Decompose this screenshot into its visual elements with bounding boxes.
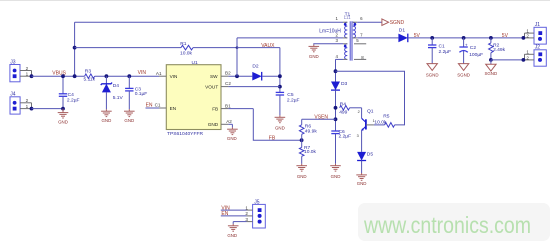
svg-text:J2: J2	[535, 45, 541, 51]
wire VIN rail	[95, 75, 159, 77]
Q1 base pin to R5	[366, 124, 374, 126]
svg-text:SGND: SGND	[457, 72, 470, 77]
capacitor C6	[335, 130, 337, 132]
wire VOUT	[228, 86, 280, 88]
svg-text:1: 1	[26, 72, 29, 77]
connector J3	[10, 65, 20, 82]
svg-text:2.2µF: 2.2µF	[339, 134, 352, 140]
svg-text:2: 2	[526, 34, 529, 39]
svg-text:+: +	[465, 42, 468, 47]
svg-text:10.0k: 10.0k	[304, 149, 317, 155]
J5 pin 2 wire EN	[221, 215, 247, 217]
svg-text:FB: FB	[212, 107, 218, 112]
svg-text:GND: GND	[331, 174, 341, 179]
wire to transformer pin 2	[237, 37, 343, 39]
node R4 junction	[334, 106, 338, 110]
capacitor C5	[276, 91, 284, 93]
J2 pin 2 wire	[523, 59, 534, 61]
svg-text:GND: GND	[297, 174, 307, 179]
svg-text:2: 2	[358, 110, 360, 114]
node R1/VAUX junction	[236, 46, 239, 49]
wire VBUS vertical to top rail	[74, 22, 76, 76]
node 5V at J1	[522, 36, 526, 40]
svg-text:D4: D4	[113, 83, 120, 89]
node C4 top	[61, 74, 65, 78]
svg-text:2.49k: 2.49k	[493, 47, 506, 53]
resistor R1	[181, 45, 193, 50]
svg-text:R3: R3	[85, 69, 92, 75]
transformer T1 core	[349, 21, 351, 60]
svg-text:6: 6	[360, 16, 363, 21]
wire Q1 emitter down	[361, 131, 363, 152]
svg-text:C2: C2	[225, 81, 231, 86]
J3 pin 2 wire	[20, 70, 32, 72]
T1 secondary winding pins 6-7	[353, 22, 356, 38]
svg-text:GND: GND	[309, 54, 319, 59]
power port SGND arrow	[382, 19, 389, 26]
svg-text:10.0k: 10.0k	[180, 50, 193, 56]
wire J4 to C4 bottom	[32, 108, 64, 110]
ground below C3	[128, 109, 130, 111]
svg-text:GND: GND	[275, 126, 285, 131]
U1 pin SW B2	[221, 75, 228, 77]
svg-text:EN: EN	[146, 103, 153, 109]
diode D5	[357, 152, 366, 161]
svg-text:5.11k: 5.11k	[84, 76, 96, 82]
svg-text:SGND: SGND	[484, 71, 497, 76]
svg-text:5V: 5V	[502, 33, 509, 39]
wire U1 GND pin to ground	[228, 123, 232, 125]
svg-text:2: 2	[26, 98, 29, 103]
T1 secondary winding pins 3-4	[345, 44, 348, 60]
wire SW vertical	[236, 38, 238, 76]
connector J4	[10, 97, 20, 114]
svg-text:1: 1	[245, 205, 248, 210]
svg-text:D2: D2	[252, 63, 259, 69]
node VBUS vertical	[73, 74, 77, 78]
connector J2	[534, 50, 546, 66]
wire VBUS rail	[32, 75, 85, 77]
svg-text:R1: R1	[180, 41, 187, 47]
resistor R6	[299, 125, 304, 135]
svg-text:A1: A1	[156, 71, 162, 76]
svg-text:3: 3	[335, 38, 338, 43]
svg-text:D3: D3	[341, 81, 348, 87]
svg-text:2.2µF: 2.2µF	[67, 97, 80, 103]
diode D1	[398, 34, 407, 43]
svg-text:EN: EN	[221, 211, 228, 217]
capacitor C3	[127, 74, 131, 78]
node C4 bottom	[61, 107, 65, 111]
svg-text:C4: C4	[68, 92, 75, 98]
ground below D4	[105, 109, 107, 111]
svg-text:GND: GND	[58, 119, 68, 124]
node VSEN junction	[334, 117, 338, 121]
svg-text:VIN: VIN	[138, 70, 147, 76]
ground below T1 pin 3	[313, 45, 315, 47]
wire R1 left	[75, 47, 181, 49]
diode D3	[331, 82, 340, 91]
svg-text:GND: GND	[227, 233, 237, 238]
svg-text:www.cntronics.com: www.cntronics.com	[363, 212, 531, 238]
svg-text:0.1µF: 0.1µF	[135, 91, 148, 97]
wire 5V rail	[408, 37, 523, 39]
svg-text:GND: GND	[227, 136, 237, 141]
wire R7 to ground	[301, 156, 303, 164]
wire VAUX vertical	[279, 48, 281, 93]
svg-text:C1: C1	[439, 43, 446, 49]
svg-text:2: 2	[245, 211, 248, 216]
wire VSEN	[302, 118, 336, 120]
J1 pin 1 wire	[525, 32, 535, 34]
T1 no-connect pin 5	[354, 43, 366, 45]
wire D5 to ground	[361, 161, 363, 174]
J5 pin 3 wire to ground	[233, 221, 246, 223]
svg-text:1: 1	[526, 50, 529, 55]
node SW vertical	[235, 74, 239, 78]
ground below D5	[361, 173, 363, 175]
svg-text:GND: GND	[124, 118, 134, 123]
svg-text:SW: SW	[210, 74, 218, 79]
resistor R7	[299, 147, 304, 156]
capacitor C1	[430, 36, 434, 40]
svg-text:1: 1	[526, 28, 529, 33]
svg-text:C1: C1	[155, 102, 161, 107]
wire T1 pin 6 to SGND port	[357, 21, 382, 23]
sgnd below R2	[490, 60, 492, 64]
svg-text:R5: R5	[383, 113, 390, 119]
svg-text:A2: A2	[226, 119, 232, 124]
svg-text:Q1: Q1	[367, 108, 374, 114]
wire R1 right to SW vertical	[193, 47, 237, 49]
svg-text:J5: J5	[254, 200, 260, 206]
ground below U1	[231, 127, 233, 129]
J5 pin 1 wire VIN	[221, 209, 247, 211]
svg-text:49.9k: 49.9k	[305, 128, 318, 134]
wire R4 to Q1 collector	[350, 107, 362, 109]
svg-text:GND: GND	[208, 122, 219, 127]
svg-text:3: 3	[245, 217, 248, 222]
J4 pin 2 wire	[20, 102, 32, 104]
svg-text:499: 499	[339, 110, 347, 116]
U1 pin FB B1	[221, 108, 228, 110]
op-amp U1 TPS61040 body	[166, 65, 221, 130]
ground below R7	[301, 164, 303, 166]
ground below C6	[335, 164, 337, 166]
node VOUT	[278, 85, 282, 89]
sgnd below C1	[427, 64, 437, 71]
svg-text:B1: B1	[225, 103, 231, 108]
node T1 pin4 / R5 rail	[334, 69, 338, 73]
ground below J5	[232, 224, 234, 226]
watermark panel	[358, 203, 550, 241]
node D2 cathode	[278, 74, 282, 78]
wire T1 pin 7 to D1	[357, 37, 398, 39]
sgnd below C2	[458, 64, 468, 71]
connector J1	[534, 27, 546, 44]
ground below C4	[62, 109, 64, 113]
resistor R2	[489, 36, 493, 40]
node FB divider	[300, 138, 304, 142]
resistor R3	[85, 74, 95, 79]
svg-text:2: 2	[26, 66, 29, 71]
resistor R4	[340, 106, 350, 111]
J4 pin 1 wire	[20, 108, 32, 110]
wire VAUX	[237, 47, 280, 49]
svg-text:J1: J1	[535, 22, 541, 28]
svg-text:1: 1	[335, 16, 338, 21]
svg-text:J4: J4	[10, 92, 16, 98]
capacitor C2 polarized	[462, 36, 466, 40]
svg-text:U1: U1	[192, 60, 199, 66]
node VBUS/R1	[73, 46, 77, 50]
wire SW to D2	[228, 75, 252, 77]
sheet top border	[0, 0, 550, 2]
svg-text:5: 5	[356, 38, 359, 43]
svg-text:SGND: SGND	[390, 20, 405, 26]
svg-text:VIN: VIN	[170, 74, 178, 79]
svg-text:5.1V: 5.1V	[113, 95, 124, 101]
svg-text:C5: C5	[287, 92, 294, 98]
ground below C5	[279, 115, 281, 117]
svg-text:D5: D5	[367, 152, 374, 158]
node VBUS at J3	[30, 74, 34, 78]
svg-text:EN: EN	[170, 106, 177, 111]
node GND at J4	[30, 107, 34, 111]
node R2 bottom	[489, 58, 493, 62]
wire FB from U1	[228, 108, 253, 110]
wire R6 to FB node	[301, 134, 303, 147]
svg-text:4: 4	[335, 54, 338, 59]
wire D2 cathode to VAUX node	[262, 75, 280, 77]
svg-text:VOUT: VOUT	[205, 85, 218, 90]
resistor R5	[385, 123, 395, 128]
svg-text:2.2µF: 2.2µF	[287, 98, 300, 104]
wire D3 cathode down	[335, 90, 337, 131]
svg-text:J3: J3	[10, 59, 16, 65]
svg-text:100µF: 100µF	[469, 52, 483, 58]
svg-text:1: 1	[26, 104, 29, 109]
svg-text:10.0k: 10.0k	[374, 119, 387, 125]
svg-text:VAUX: VAUX	[261, 43, 275, 49]
svg-text:TPS61040YFFR: TPS61040YFFR	[167, 131, 203, 137]
T1 no-connect pin 8	[354, 58, 366, 60]
zener diode D4	[105, 74, 109, 78]
wire EN stub	[146, 107, 160, 109]
svg-text:2: 2	[526, 56, 529, 61]
wire T1 pin 4 down	[336, 58, 344, 60]
diode D2	[252, 72, 261, 81]
wire pin4 junction to R5 rail	[336, 71, 405, 125]
wire R2 to J2	[491, 59, 524, 61]
svg-text:2.2µF: 2.2µF	[439, 49, 452, 55]
svg-text:SGND: SGND	[426, 72, 439, 77]
U1 pin EN C1	[159, 107, 166, 109]
U1 pin GND A2	[221, 123, 228, 125]
U1 pin VIN A1	[159, 75, 166, 77]
svg-text:R4: R4	[340, 102, 347, 108]
J2 pin 1 wire	[525, 53, 535, 55]
node J2 wire	[522, 58, 526, 62]
svg-text:FB: FB	[269, 135, 276, 141]
svg-text:D1: D1	[399, 27, 406, 33]
T1 primary winding pins 1-2	[345, 22, 348, 38]
svg-text:C2: C2	[470, 45, 477, 51]
J1 pin 2 wire	[523, 37, 534, 39]
svg-text:B2: B2	[225, 70, 231, 75]
J3 pin 1 wire	[20, 75, 32, 77]
capacitor C4	[62, 76, 64, 94]
wire top rail to transformer pin 1	[75, 21, 343, 23]
svg-text:GND: GND	[357, 181, 367, 186]
svg-text:GND: GND	[102, 118, 112, 123]
svg-text:7: 7	[360, 32, 363, 37]
U1 pin VOUT C2	[221, 86, 228, 88]
wire T1 pin 3 to ground	[314, 43, 343, 46]
svg-text:1:1:1: 1:1:1	[344, 14, 351, 19]
svg-text:3: 3	[357, 134, 359, 138]
connector J5	[253, 204, 266, 228]
